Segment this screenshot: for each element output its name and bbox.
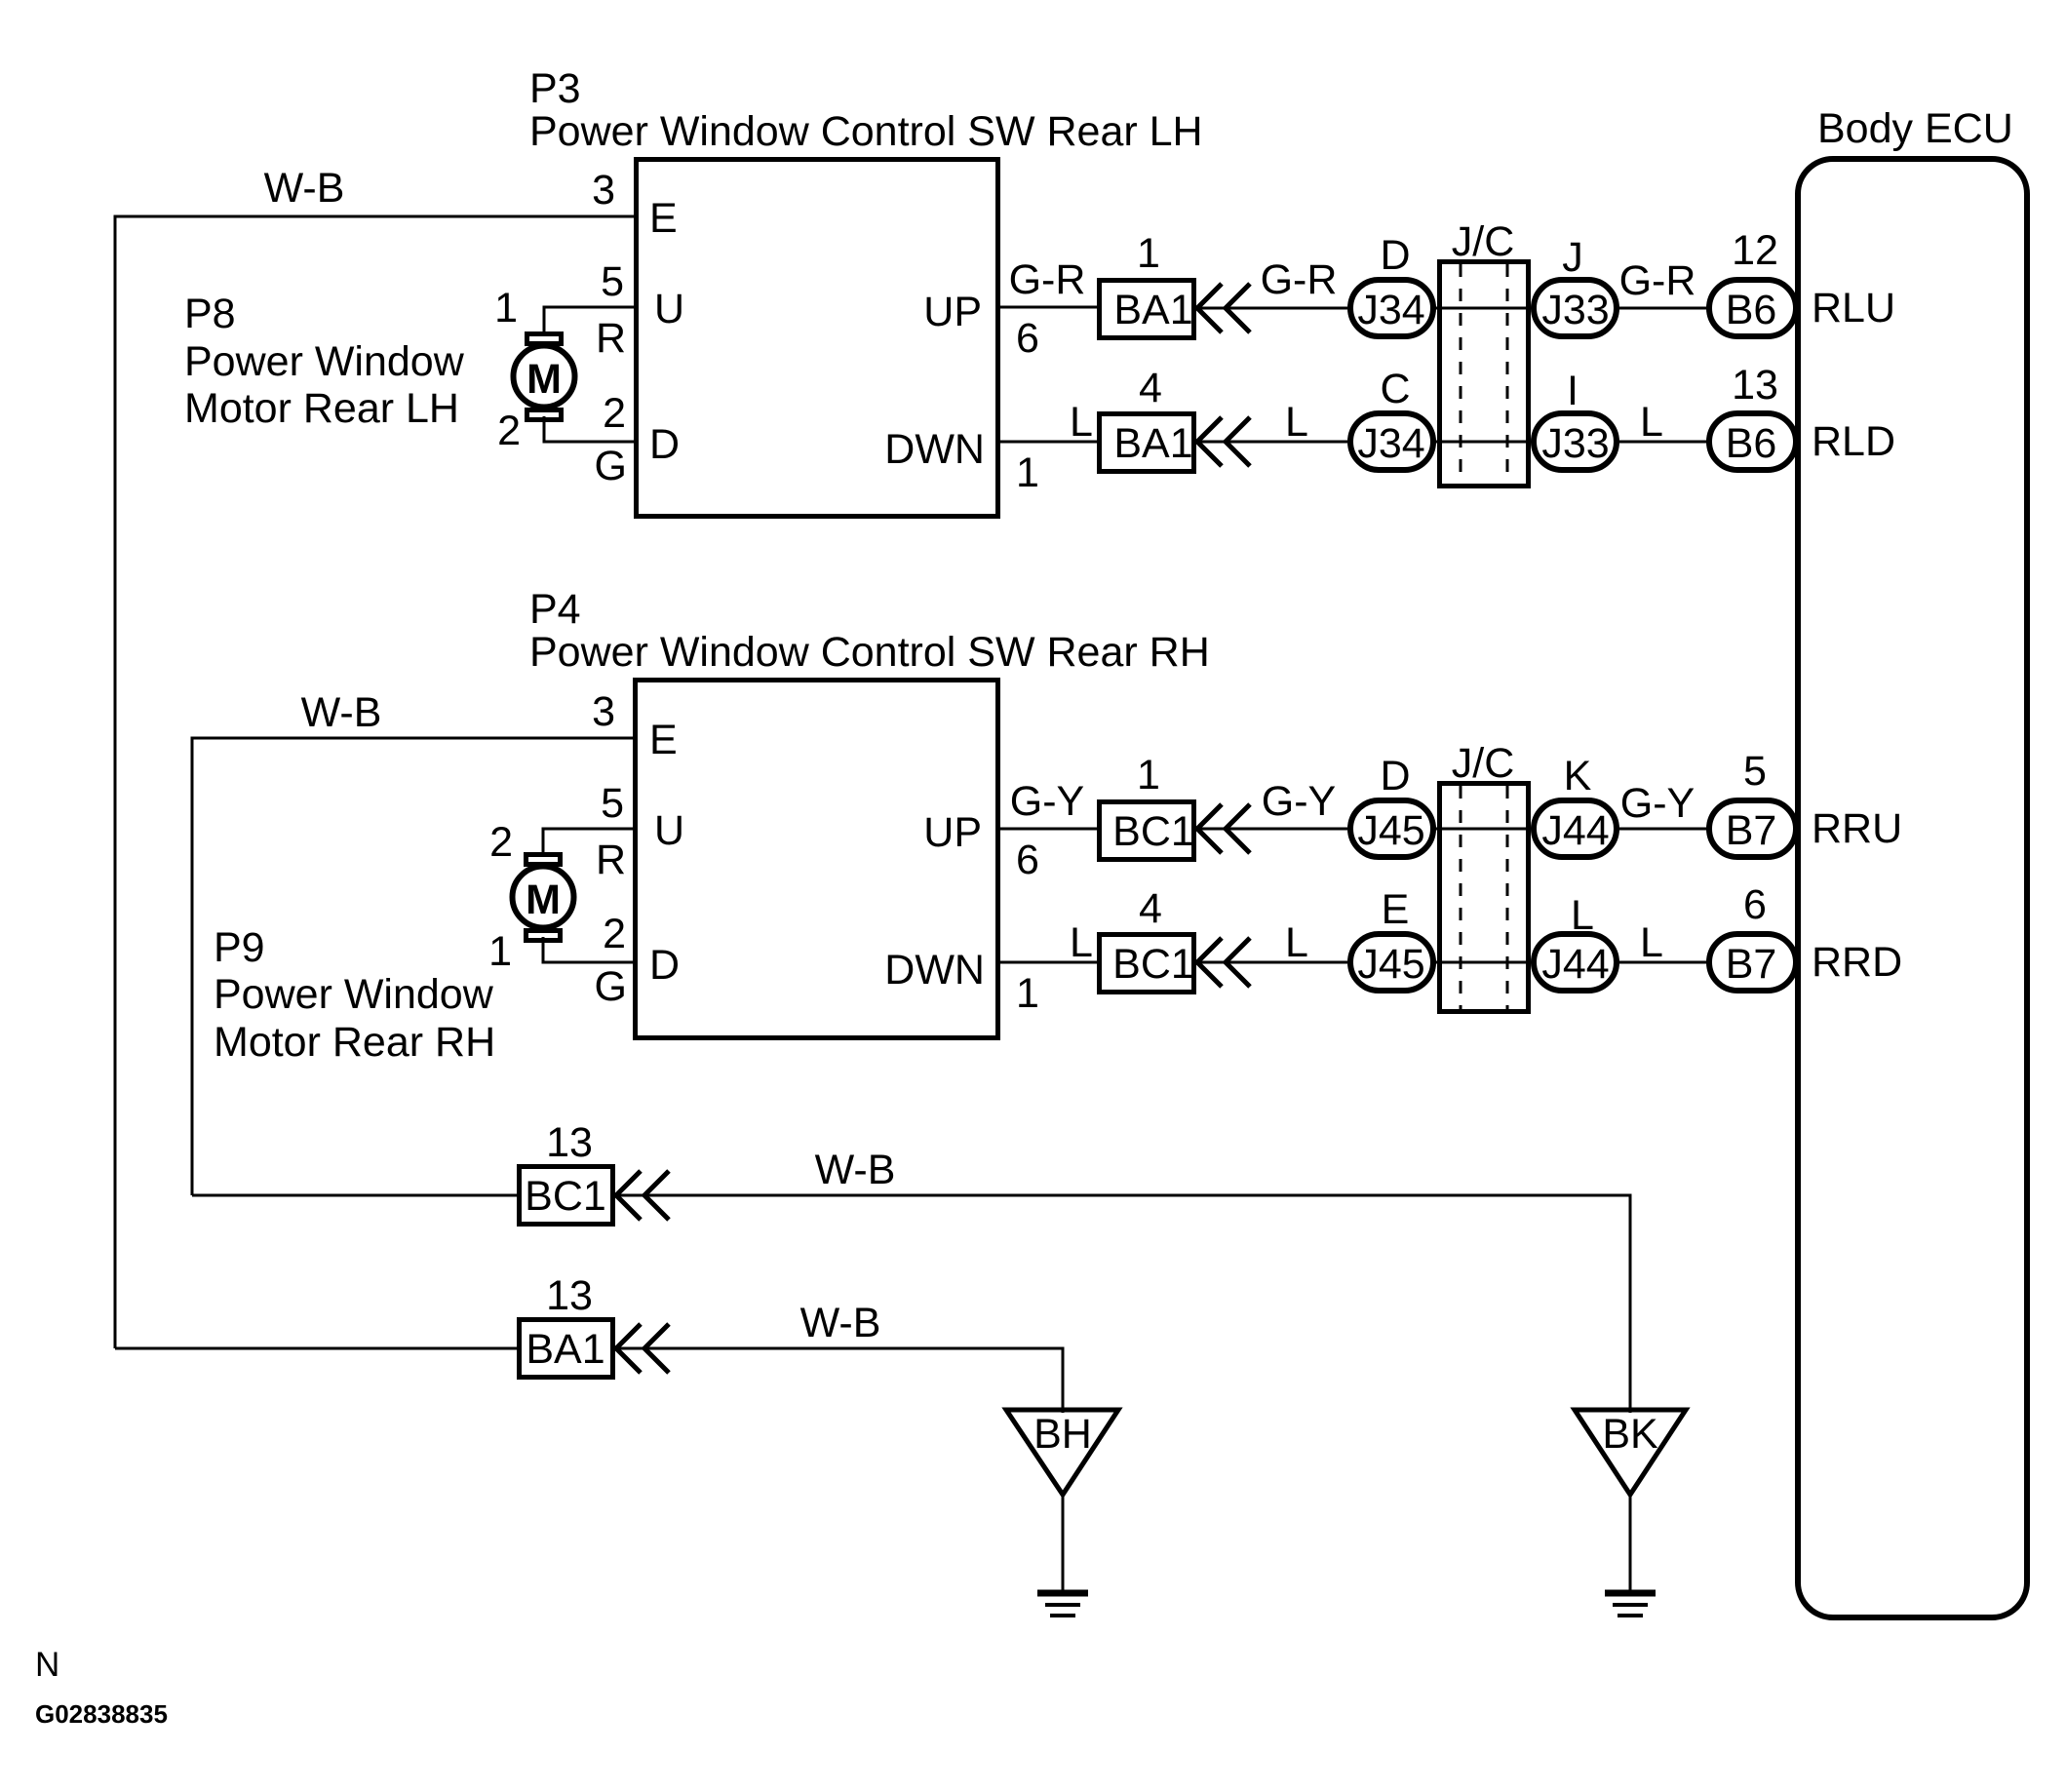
connector BC1 pin 13 ground lead	[520, 1119, 613, 1225]
svg-text:J44: J44	[1541, 807, 1609, 854]
svg-text:M: M	[526, 877, 561, 923]
wire through J/C row RLU	[1433, 307, 1534, 310]
arrows BA1 pin13	[616, 1324, 669, 1373]
wire L from P4 DWN to BC1	[997, 919, 1099, 966]
svg-text:G-Y: G-Y	[1010, 778, 1084, 825]
connector B7 pin 6 RRD	[1709, 881, 1902, 991]
svg-text:W-B: W-B	[800, 1300, 881, 1346]
svg-text:L: L	[1285, 919, 1308, 966]
wire G-Y from P4 UP to BC1	[997, 778, 1099, 829]
motor P8 label	[184, 291, 465, 432]
svg-text:2: 2	[603, 911, 626, 957]
arrows BC1 pin1	[1197, 804, 1250, 853]
svg-text:Power Window Control SW Rear R: Power Window Control SW Rear RH	[529, 629, 1210, 676]
junction J45 pin D	[1350, 753, 1433, 857]
wire L J33 to B6	[1617, 399, 1709, 446]
wire G-R BA1 to J34	[1199, 256, 1347, 308]
switch P3 box	[637, 160, 998, 517]
junction J33 pin J	[1534, 234, 1617, 336]
connector BC1 pin 4	[1100, 885, 1194, 993]
svg-text:UP: UP	[923, 809, 982, 856]
svg-text:RLU: RLU	[1812, 285, 1895, 331]
svg-text:5: 5	[1743, 748, 1767, 795]
svg-text:J33: J33	[1541, 287, 1609, 333]
svg-text:U: U	[654, 807, 684, 854]
svg-text:BC1: BC1	[525, 1173, 606, 1220]
wire W-B BA1 to BH	[618, 1300, 1063, 1413]
junction J34 pin C	[1350, 366, 1433, 470]
switch P4 box	[636, 681, 998, 1038]
svg-text:BA1: BA1	[1113, 420, 1192, 467]
svg-text:1: 1	[1016, 970, 1039, 1017]
junction J33 pin I	[1534, 368, 1617, 470]
svg-text:4: 4	[1139, 885, 1162, 932]
svg-text:L: L	[1640, 399, 1663, 446]
svg-text:Motor Rear RH: Motor Rear RH	[214, 1019, 495, 1066]
wire G-Y J44 to B7	[1617, 780, 1709, 829]
P3 pin DWN 1	[884, 426, 1039, 496]
svg-text:6: 6	[1016, 837, 1039, 883]
svg-text:J34: J34	[1357, 420, 1424, 467]
svg-text:Power Window Control SW Rear L: Power Window Control SW Rear LH	[529, 108, 1203, 155]
svg-text:G02838835: G02838835	[35, 1699, 168, 1729]
arrows BA1 pin4	[1197, 417, 1250, 466]
arrows BA1 pin1	[1197, 284, 1250, 332]
svg-text:D: D	[649, 942, 680, 989]
svg-text:G-Y: G-Y	[1262, 778, 1336, 825]
P3 pin 3 E	[592, 167, 678, 242]
svg-text:G: G	[595, 443, 627, 489]
switch P3 label	[529, 65, 1203, 155]
Body ECU box	[1798, 105, 2027, 1617]
switch P4 label	[529, 586, 1210, 676]
svg-text:B7: B7	[1726, 807, 1777, 854]
connector BA1 pin 13 ground lead	[520, 1272, 613, 1378]
svg-text:2: 2	[603, 390, 626, 437]
svg-text:Body ECU: Body ECU	[1817, 105, 2013, 152]
wire G-Y BC1 to J45	[1199, 778, 1347, 829]
svg-text:3: 3	[592, 167, 615, 214]
svg-text:2: 2	[497, 408, 521, 454]
svg-text:Motor Rear LH: Motor Rear LH	[184, 385, 459, 432]
svg-text:P8: P8	[184, 291, 236, 337]
svg-text:4: 4	[1139, 365, 1162, 411]
wire W-B BC1 to BK	[618, 1147, 1630, 1413]
svg-text:E: E	[649, 195, 678, 242]
ground triangle BH	[1006, 1410, 1118, 1495]
P4 pin 5 U R	[596, 780, 684, 883]
wire BK to ground	[1629, 1495, 1632, 1591]
svg-text:G-R: G-R	[1009, 256, 1086, 303]
svg-text:RLD: RLD	[1812, 418, 1895, 465]
wire P3 U to motor P8	[544, 307, 636, 336]
svg-text:BK: BK	[1602, 1411, 1658, 1458]
svg-text:D: D	[649, 421, 680, 468]
svg-text:C: C	[1380, 366, 1410, 412]
svg-text:1: 1	[488, 928, 512, 975]
svg-text:RRD: RRD	[1812, 939, 1902, 986]
wire through J/C row RLD	[1433, 441, 1534, 444]
svg-text:1: 1	[494, 285, 518, 331]
svg-text:BC1: BC1	[1112, 808, 1194, 855]
connector B6 pin 13 RLD	[1709, 362, 1895, 470]
svg-text:J34: J34	[1357, 287, 1424, 333]
svg-text:BA1: BA1	[1113, 287, 1192, 333]
connector BA1 pin 1	[1100, 230, 1194, 338]
wire L from P3 DWN to BA1	[998, 399, 1099, 446]
P3 pin 5 U R	[596, 258, 684, 362]
ground triangle BK	[1575, 1410, 1686, 1495]
wire L J44 to B7	[1617, 919, 1709, 966]
svg-text:1: 1	[1016, 449, 1039, 496]
wire W-B to P4 pin E	[192, 689, 635, 1195]
P3 pin 2 D G	[595, 390, 681, 489]
svg-text:B6: B6	[1726, 287, 1777, 333]
svg-text:J45: J45	[1357, 807, 1424, 854]
wire P4 U to motor P9	[543, 829, 635, 857]
svg-text:W-B: W-B	[264, 165, 345, 212]
wire P4 D to motor P9	[543, 937, 635, 962]
wire P3 W-B to BA1	[115, 1347, 519, 1350]
svg-text:R: R	[596, 315, 626, 362]
svg-text:RRU: RRU	[1812, 805, 1902, 852]
arrows BC1 pin13	[616, 1171, 669, 1220]
svg-text:3: 3	[592, 688, 615, 735]
svg-text:P3: P3	[529, 65, 581, 112]
svg-text:I: I	[1567, 368, 1579, 414]
svg-text:13: 13	[546, 1272, 593, 1319]
svg-text:6: 6	[1016, 315, 1039, 362]
svg-text:B7: B7	[1726, 941, 1777, 988]
wire L BA1 to J34	[1199, 399, 1347, 446]
svg-text:J45: J45	[1357, 941, 1424, 988]
wire G-R from P3 UP to BA1	[998, 256, 1099, 307]
junction connector J/C lower	[1440, 740, 1529, 1012]
motor P8	[514, 334, 575, 420]
connector B7 pin 5 RRU	[1709, 748, 1902, 857]
wire L BC1 to J45	[1199, 919, 1347, 966]
ground symbol BH	[1037, 1593, 1088, 1616]
svg-text:L: L	[1640, 919, 1663, 966]
svg-text:G: G	[595, 963, 627, 1010]
svg-text:DWN: DWN	[884, 947, 985, 993]
junction J34 pin D	[1350, 232, 1433, 336]
svg-text:J/C: J/C	[1452, 218, 1515, 265]
arrows BC1 pin4	[1197, 938, 1250, 987]
svg-text:J33: J33	[1541, 420, 1609, 467]
junction J45 pin E	[1350, 886, 1433, 991]
svg-text:K: K	[1564, 753, 1592, 799]
svg-text:N: N	[35, 1646, 59, 1684]
svg-text:1: 1	[1137, 230, 1160, 277]
connector BA1 pin 4	[1100, 365, 1194, 472]
svg-text:DWN: DWN	[884, 426, 985, 473]
wire P4 W-B to BC1	[192, 1194, 519, 1197]
svg-text:B6: B6	[1726, 420, 1777, 467]
svg-text:L: L	[1285, 399, 1308, 446]
svg-text:M: M	[526, 356, 562, 403]
svg-text:J/C: J/C	[1452, 740, 1515, 787]
wire BH to ground	[1062, 1495, 1065, 1591]
motor P9 label	[214, 924, 495, 1066]
svg-text:Power Window: Power Window	[184, 338, 465, 385]
svg-text:R: R	[596, 837, 626, 883]
P4 pin DWN 1	[884, 947, 1039, 1017]
svg-text:5: 5	[601, 258, 624, 305]
svg-text:W-B: W-B	[301, 689, 382, 736]
svg-text:P9: P9	[214, 924, 265, 971]
svg-text:BH: BH	[1033, 1411, 1092, 1458]
junction J44 pin L	[1534, 892, 1617, 991]
svg-text:D: D	[1380, 753, 1410, 799]
svg-text:G-Y: G-Y	[1620, 780, 1695, 827]
svg-text:D: D	[1380, 232, 1410, 279]
svg-text:J44: J44	[1541, 941, 1609, 988]
wire G-R J33 to B6	[1617, 257, 1709, 308]
junction J44 pin K	[1534, 753, 1617, 857]
svg-text:L: L	[1070, 919, 1093, 966]
junction connector J/C upper	[1440, 218, 1529, 487]
wire through J/C row RRU	[1433, 828, 1534, 831]
P4 pin 3 E	[592, 688, 678, 763]
wire P3 D to motor P8	[544, 416, 636, 442]
svg-text:L: L	[1070, 399, 1093, 446]
svg-text:13: 13	[1732, 362, 1778, 409]
svg-text:U: U	[654, 286, 684, 332]
svg-text:6: 6	[1743, 881, 1767, 928]
connector BC1 pin 1	[1100, 752, 1194, 860]
svg-text:G-R: G-R	[1619, 257, 1696, 304]
connector B6 pin 12 RLU	[1709, 227, 1895, 336]
P4 pin UP 6	[923, 809, 1039, 883]
svg-text:E: E	[1382, 886, 1410, 933]
svg-text:P4: P4	[529, 586, 581, 633]
motor P9	[513, 855, 574, 941]
P4 pin 2 D G	[595, 911, 681, 1010]
svg-text:1: 1	[1137, 752, 1160, 799]
svg-text:12: 12	[1732, 227, 1778, 274]
svg-text:E: E	[649, 717, 678, 763]
svg-text:Power Window: Power Window	[214, 971, 494, 1018]
svg-text:W-B: W-B	[815, 1147, 896, 1193]
svg-text:J: J	[1562, 234, 1583, 281]
ground symbol BK	[1605, 1593, 1656, 1616]
svg-text:2: 2	[489, 819, 513, 866]
wire through J/C row RRD	[1433, 961, 1534, 964]
wire W-B to P3 pin E	[115, 165, 636, 1348]
svg-text:13: 13	[546, 1119, 593, 1166]
svg-text:UP: UP	[923, 289, 982, 335]
svg-text:5: 5	[601, 780, 624, 827]
svg-text:BC1: BC1	[1112, 941, 1194, 988]
P3 pin UP 6	[923, 289, 1039, 362]
svg-text:G-R: G-R	[1261, 256, 1338, 303]
svg-text:BA1: BA1	[526, 1326, 604, 1373]
